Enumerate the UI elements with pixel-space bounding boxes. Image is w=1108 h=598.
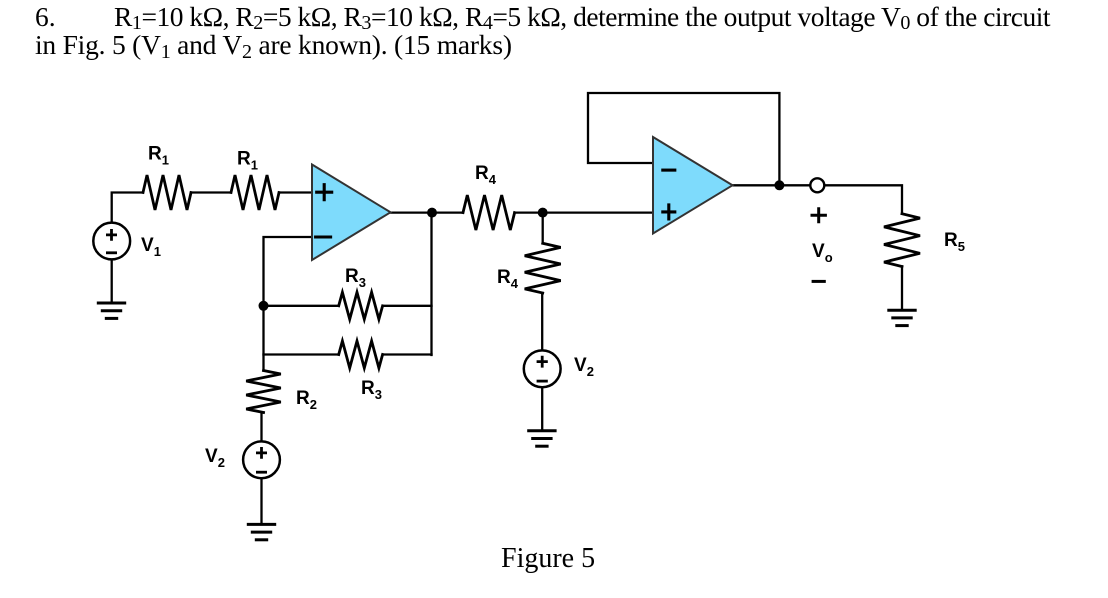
wire V1 source to ground: [111, 260, 113, 303]
wire R1 to opamp1 plus input: [279, 191, 312, 193]
source V2 middle plus polarity mark: [538, 357, 546, 366]
ground V2 left: [248, 524, 274, 539]
wire V1 top to R1: [112, 193, 143, 223]
svg-text:R4: R4: [475, 163, 497, 187]
wire terminal to R5 top: [825, 185, 902, 213]
problem text line 1: [114, 3, 1050, 31]
wire output node to R4 vertical: [542, 213, 544, 244]
svg-text:V2: V2: [574, 355, 594, 379]
wire R2 to V2 left source: [262, 413, 264, 442]
svg-text:R3: R3: [361, 378, 382, 402]
source V2 left minus polarity mark: [257, 471, 265, 474]
svg-text:R3: R3: [345, 266, 366, 290]
problem text line 1 number: [35, 3, 56, 31]
feedback wire opamp2: [588, 93, 779, 185]
svg-text:R5: R5: [944, 230, 965, 254]
wire V2 middle source to ground: [541, 387, 543, 431]
resistor R3 upper zigzag: [339, 292, 383, 319]
junction node at opamp1 output: [427, 208, 437, 218]
svg-text:V2: V2: [205, 446, 225, 470]
junction node at R4 right: [538, 208, 548, 218]
figure caption: [501, 545, 595, 573]
resistor R3 upper: right wire: [383, 305, 432, 307]
wire R4 vertical to V2 middle source: [541, 293, 544, 351]
wire opamp2 output to terminal: [733, 184, 811, 186]
resistor R4 horizontal zigzag: [463, 195, 515, 230]
problem text line 2: [35, 31, 512, 59]
op-amp U2 inverting input minus mark: [663, 169, 675, 172]
resistor R4 vertical zigzag: [525, 243, 561, 293]
output terminal circle: [810, 178, 824, 192]
ground R5: [889, 310, 915, 325]
ground V1: [98, 303, 124, 318]
resistor R1 left zigzag: [143, 175, 191, 210]
svg-text:Vo: Vo: [812, 241, 833, 265]
junction node on left rail at R3 upper: [259, 301, 269, 311]
op-amp U1 inverting input minus mark: [316, 235, 331, 238]
resistor R2 vertical zigzag: [246, 371, 281, 413]
resistor R3 lower: left wire: [264, 353, 339, 355]
svg-text:R1: R1: [148, 144, 169, 168]
op-amp U2 non-inverting input plus mark: [663, 205, 675, 219]
junction node at opamp2 output feedback: [774, 180, 784, 190]
svg-text:R2: R2: [296, 388, 317, 412]
wire opamp1 minus input to left vertical rail: [264, 237, 313, 371]
source V1 minus polarity mark: [107, 251, 115, 254]
ground V2 middle: [529, 431, 555, 446]
source V2 left plus polarity mark: [257, 448, 265, 457]
resistor R3 upper: left wire: [264, 305, 339, 307]
resistor R1 right zigzag: [231, 175, 279, 210]
resistor R3 lower: right wire: [383, 353, 432, 355]
source V1 plus polarity mark: [107, 230, 115, 239]
wire opamp1 output: [391, 211, 464, 213]
voltage source V2 left: [243, 441, 280, 478]
resistor R5 vertical zigzag: [884, 214, 920, 267]
resistor R3 lower zigzag: [339, 341, 383, 368]
op-amp U1: [312, 165, 391, 261]
svg-text:R4: R4: [497, 267, 519, 291]
svg-text:V1: V1: [141, 235, 161, 259]
svg-text:R1: R1: [237, 149, 258, 173]
voltage source V2 middle: [524, 350, 561, 387]
minus sign below Vo: [813, 280, 824, 283]
wire V2 left source to ground: [260, 478, 262, 524]
wire R4 to opamp2 plus input: [515, 211, 654, 213]
plus sign above Vo: [812, 209, 825, 222]
wire R5 to ground: [901, 266, 903, 310]
wire vertical from output node down to R3 pair: [430, 213, 432, 355]
op-amp U1 non-inverting input plus mark: [317, 185, 332, 200]
source V2 middle minus polarity mark: [538, 380, 546, 383]
wire between R1s: [191, 191, 231, 193]
op-amp U2: [653, 137, 733, 234]
voltage source V1: [93, 223, 130, 260]
